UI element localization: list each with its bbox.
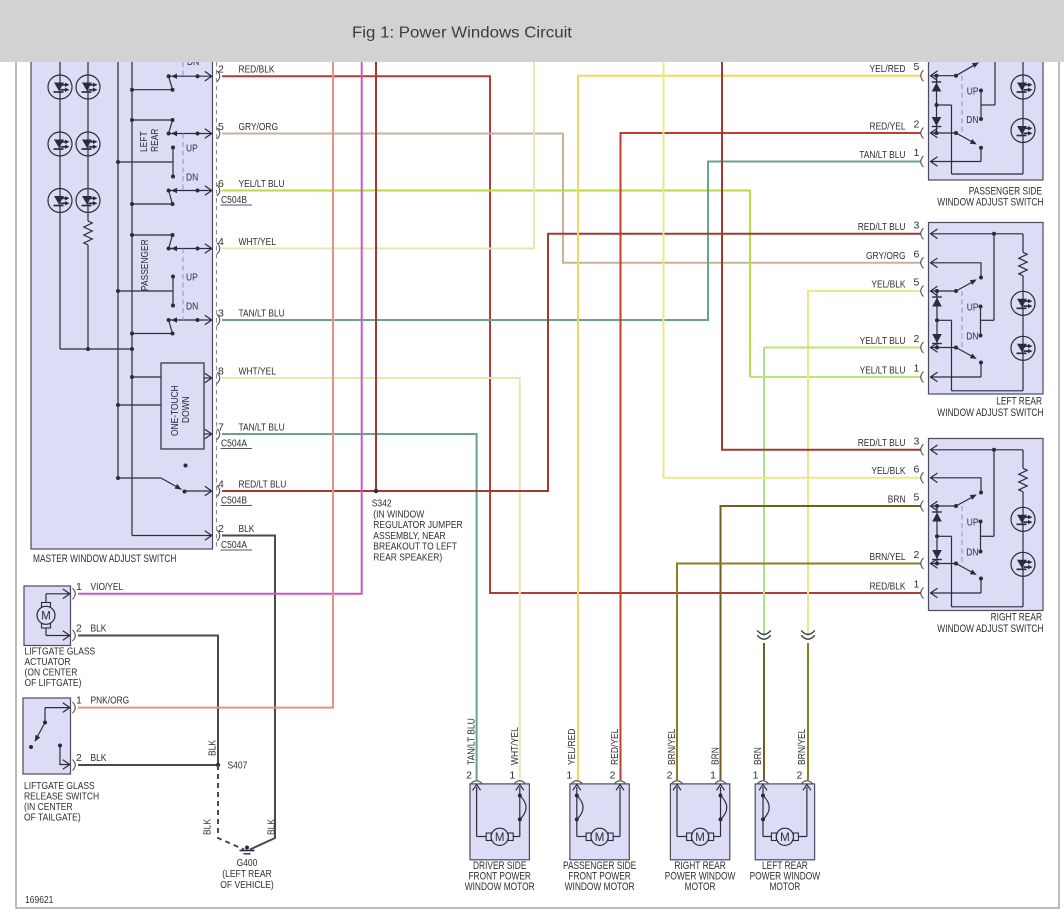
- svg-text:UP: UP: [967, 517, 979, 529]
- master switch internal bus A: [131, 62, 133, 536]
- svg-text:2: 2: [76, 752, 82, 764]
- motor internal wires: [676, 787, 678, 837]
- svg-text:1: 1: [914, 363, 920, 375]
- svg-text:WINDOW MOTOR: WINDOW MOTOR: [565, 881, 635, 893]
- wire RED/LT BLU splice branch to top: [375, 62, 377, 491]
- svg-text:VIO/YEL: VIO/YEL: [91, 581, 124, 593]
- wire BLK dashed S407 to ground G400: [218, 765, 244, 850]
- motor pin connectors: [758, 781, 769, 784]
- svg-text:RED/BLK: RED/BLK: [239, 64, 275, 76]
- svg-text:OF VEHICLE): OF VEHICLE): [220, 880, 273, 891]
- right rear window adjust switch box: [929, 439, 1044, 611]
- motor pin connectors: [471, 781, 482, 784]
- svg-text:OF TAILGATE): OF TAILGATE): [24, 813, 81, 824]
- right side pin 6 YEL/BLK connector: [921, 472, 924, 483]
- master switch actuator dashed linkage left-rear: [182, 134, 184, 191]
- svg-text:1: 1: [914, 579, 920, 591]
- master switch contact row at pin y=133.5: [169, 133, 211, 135]
- motor internal wires: [476, 787, 478, 837]
- master pin 7 TAN/LT BLU connector: [217, 429, 220, 440]
- svg-text:5: 5: [218, 121, 224, 133]
- left rear power window motor box: [755, 784, 814, 860]
- resistor: [1019, 252, 1027, 275]
- svg-text:BLK: BLK: [91, 623, 107, 635]
- svg-text:(IN WINDOW: (IN WINDOW: [373, 509, 424, 520]
- svg-text:RED/LT BLU: RED/LT BLU: [858, 221, 906, 233]
- svg-text:GRY/ORG: GRY/ORG: [239, 121, 279, 133]
- svg-text:DN: DN: [966, 547, 978, 559]
- svg-text:C504B: C504B: [221, 496, 247, 507]
- wire YEL/RED passenger pin5 to passenger motor pin1: [578, 76, 921, 780]
- svg-text:RIGHT REAR: RIGHT REAR: [991, 612, 1042, 624]
- pin6 wire to upper throw contact: [931, 473, 938, 483]
- svg-text:4: 4: [218, 478, 224, 490]
- master switch LED column 1: [59, 62, 61, 349]
- master switch UP/DN contacts passenger section: [171, 275, 175, 279]
- svg-text:2: 2: [914, 549, 920, 561]
- motor pin connectors: [571, 781, 582, 784]
- master switch UP/DN contacts left-rear section: [171, 146, 175, 150]
- svg-text:6: 6: [914, 463, 920, 475]
- svg-text:169621: 169621: [25, 895, 54, 906]
- svg-text:5: 5: [914, 277, 920, 289]
- svg-text:RED/YEL: RED/YEL: [870, 120, 906, 132]
- right side pin 3 RED/LT BLU connector: [921, 444, 924, 455]
- motor commutation arc: [575, 794, 579, 798]
- passenger pin1 row: [931, 157, 938, 167]
- svg-text:TAN/LT BLU: TAN/LT BLU: [859, 149, 905, 161]
- master switch actuator dashed linkage passenger: [182, 249, 184, 321]
- liftgate actuator pin connectors: [73, 588, 76, 599]
- svg-text:2: 2: [914, 119, 920, 131]
- wire BRN right rear pin5 to right rear motor pin1: [721, 506, 922, 780]
- one-touch down output rows pins 8 and 7: [204, 377, 211, 379]
- up switch arm: [956, 496, 975, 507]
- motor symbol: [486, 833, 491, 841]
- svg-text:M: M: [495, 832, 505, 844]
- master window adjust switch U1 box: [31, 57, 213, 549]
- release switch pin connectors: [73, 702, 76, 713]
- svg-text:BRN: BRN: [711, 747, 722, 765]
- svg-text:5: 5: [914, 61, 920, 73]
- svg-text:RED/BLK: RED/BLK: [870, 580, 906, 592]
- right side pin 1 TAN/LT BLU connector: [921, 156, 924, 167]
- svg-text:2: 2: [466, 770, 472, 782]
- motor pin connectors: [672, 781, 683, 784]
- svg-text:LIFTGATE GLASS: LIFTGATE GLASS: [25, 646, 96, 657]
- svg-text:YEL/LT BLU: YEL/LT BLU: [860, 364, 906, 376]
- wire PNK/ORG liftgate release switch pin1 to top: [78, 62, 333, 708]
- LED return bus: [952, 390, 1024, 392]
- passenger side window adjust switch box: [929, 57, 1044, 180]
- pin2 wire and down switch arm: [931, 559, 938, 569]
- passenger switch internals: [931, 71, 938, 81]
- master pin 5 GRY/ORG connector: [217, 128, 220, 139]
- master connector dashed boundary C504: [216, 62, 218, 549]
- wire BLK liftgate release switch pin2 to splice S407: [78, 764, 218, 766]
- svg-text:DN: DN: [186, 301, 198, 313]
- svg-text:LEFTREAR: LEFTREAR: [138, 128, 161, 152]
- svg-text:YEL/LT BLU: YEL/LT BLU: [239, 178, 285, 190]
- svg-text:BREAKOUT TO LEFT: BREAKOUT TO LEFT: [373, 542, 457, 553]
- svg-text:WINDOW ADJUST SWITCH: WINDOW ADJUST SWITCH: [937, 407, 1043, 419]
- switch common feed: [993, 450, 995, 537]
- motor commutation arc: [761, 794, 765, 798]
- svg-text:6: 6: [914, 248, 920, 260]
- one-touch down module box: [161, 363, 204, 449]
- wire BRN/YEL right rear pin2 to right rear motor pin2: [677, 564, 921, 781]
- svg-text:M: M: [780, 832, 790, 844]
- master pin 8 WHT/YEL connector: [217, 373, 220, 384]
- svg-text:G400: G400: [237, 858, 258, 869]
- passenger LED return bus: [937, 104, 952, 106]
- driver side front power window motor box: [470, 784, 529, 860]
- pin2 wire and down switch arm: [931, 343, 938, 353]
- svg-text:TAN/LT BLU: TAN/LT BLU: [467, 718, 478, 765]
- motor internal wires: [762, 787, 764, 837]
- LED indicator right column row 2: [76, 132, 100, 156]
- passenger LED column: [1022, 62, 1024, 174]
- motor commutation arc: [719, 794, 723, 798]
- pin1 wire: [931, 588, 938, 598]
- wire TAN/LT BLU master pin3 to passenger pin1: [222, 162, 921, 321]
- svg-text:C504A: C504A: [221, 540, 247, 551]
- release switch internals: [45, 707, 69, 709]
- LED upper: [1011, 291, 1035, 315]
- svg-text:2: 2: [796, 770, 802, 782]
- right rear power window motor box: [670, 784, 729, 860]
- svg-text:7: 7: [218, 421, 224, 433]
- svg-text:WINDOW ADJUST SWITCH: WINDOW ADJUST SWITCH: [937, 623, 1043, 635]
- title bar: [0, 0, 1064, 62]
- master pin 3 TAN/LT BLU connector: [217, 315, 220, 326]
- svg-text:YEL/LT BLU: YEL/LT BLU: [860, 335, 906, 347]
- svg-text:UP: UP: [186, 143, 198, 155]
- splice S407: [216, 763, 220, 767]
- wire WHT/YEL master pin4 to top: [222, 62, 534, 249]
- svg-text:WHT/YEL: WHT/YEL: [239, 365, 277, 377]
- LED indicator left column row 2: [48, 132, 72, 156]
- right side pin 3 RED/LT BLU connector: [921, 228, 924, 239]
- switch common feed: [993, 234, 995, 320]
- diode pair: [936, 506, 938, 564]
- up switch arm: [956, 281, 975, 292]
- pin5 wire: [931, 501, 938, 511]
- svg-text:PNK/ORG: PNK/ORG: [91, 695, 130, 707]
- liftgate glass release switch box: [23, 698, 71, 774]
- passenger dashed linkage: [961, 76, 963, 133]
- wire BRN/YEL inline connector to left rear motor pin2: [807, 643, 809, 780]
- svg-text:OF LIFTGATE): OF LIFTGATE): [25, 678, 82, 689]
- wire YEL/LT BLU left rear pin2 down to inline connector: [764, 347, 921, 349]
- svg-text:BRN/YEL: BRN/YEL: [667, 728, 678, 765]
- svg-text:BRN/YEL: BRN/YEL: [870, 551, 906, 563]
- svg-text:MOTOR: MOTOR: [685, 881, 716, 893]
- passenger side front power window motor box: [570, 784, 629, 860]
- svg-text:BLK: BLK: [239, 523, 255, 535]
- master switch LED column 2: [87, 62, 89, 221]
- right side pin 5 BRN connector: [921, 501, 924, 512]
- LED merge wire: [60, 348, 132, 350]
- svg-text:WINDOW MOTOR: WINDOW MOTOR: [465, 881, 535, 893]
- svg-text:UP: UP: [967, 86, 979, 98]
- svg-text:BRN/YEL: BRN/YEL: [797, 728, 808, 765]
- resistor: [1019, 468, 1027, 492]
- svg-text:BLK: BLK: [203, 819, 214, 835]
- master switch actuator dashed linkage top clipped: [182, 62, 184, 76]
- svg-text:DN: DN: [966, 331, 978, 343]
- svg-text:M: M: [695, 832, 705, 844]
- svg-text:3: 3: [914, 435, 920, 447]
- svg-text:DN: DN: [186, 172, 198, 184]
- svg-text:Fig 1: Power Windows Circuit: Fig 1: Power Windows Circuit: [352, 25, 573, 42]
- svg-text:RED/LT BLU: RED/LT BLU: [239, 478, 287, 490]
- svg-text:2: 2: [610, 770, 616, 782]
- svg-text:2: 2: [218, 523, 224, 535]
- wire YEL/LT BLU master pin6 to left rear pin1: [222, 191, 750, 378]
- svg-text:M: M: [41, 611, 51, 623]
- wire TAN/LT BLU master pin7 to driver motor pin2: [222, 434, 477, 780]
- liftgate actuator motor symbol: [45, 594, 47, 604]
- svg-text:WHT/YEL: WHT/YEL: [510, 727, 521, 765]
- master pin 2 BLK connector: [217, 530, 220, 541]
- svg-text:RED/YEL: RED/YEL: [610, 728, 621, 765]
- right side pin 1 YEL/LT BLU connector: [921, 372, 924, 383]
- svg-text:3: 3: [914, 219, 920, 231]
- wire RED/LT BLU master pin4 via splice S342 to left rear pin3: [222, 234, 921, 491]
- wire YEL/BLK left rear pin5 down to inline connector: [808, 291, 921, 637]
- ground G400: [245, 846, 249, 850]
- svg-text:MOTOR: MOTOR: [769, 881, 800, 893]
- svg-text:C504B: C504B: [221, 195, 247, 206]
- actuator dashed linkage: [961, 506, 963, 564]
- wire RED/YEL passenger pin2 to passenger motor pin2: [621, 133, 922, 780]
- svg-text:(IN CENTER: (IN CENTER: [24, 802, 73, 813]
- svg-text:YEL/RED: YEL/RED: [870, 63, 906, 75]
- liftgate glass actuator box: [24, 586, 71, 646]
- svg-text:BLK: BLK: [208, 740, 219, 756]
- passenger diode pair: [936, 76, 938, 133]
- svg-text:UP: UP: [967, 302, 979, 314]
- right side pin 6 GRY/ORG connector: [921, 257, 924, 268]
- passenger UP/DN common: [979, 89, 983, 93]
- pin3 feed wire and resistor branch: [931, 233, 1024, 235]
- right side pin 2 RED/YEL connector: [921, 128, 924, 139]
- svg-text:LEFT REAR: LEFT REAR: [996, 396, 1042, 408]
- svg-text:1: 1: [753, 770, 759, 782]
- svg-text:UP: UP: [186, 272, 198, 284]
- svg-text:DN: DN: [966, 114, 978, 126]
- svg-text:RELEASE SWITCH: RELEASE SWITCH: [24, 792, 99, 803]
- svg-text:BLK: BLK: [91, 752, 107, 764]
- master switch internal bus B: [117, 62, 119, 478]
- svg-text:BRN: BRN: [753, 747, 764, 765]
- pin6 wire to upper throw contact: [931, 258, 938, 268]
- svg-text:LIFTGATE GLASS: LIFTGATE GLASS: [24, 781, 95, 792]
- master switch ground row pin2 BLK: [132, 535, 211, 537]
- right side pin 1 RED/BLK connector: [921, 588, 924, 599]
- right side pin 2 BRN/YEL connector: [921, 558, 924, 569]
- actuator dashed linkage: [961, 291, 963, 348]
- master switch contact row at pin y=190.5: [169, 190, 211, 192]
- svg-text:5: 5: [914, 492, 920, 504]
- master pin 2 RED/BLK connector: [217, 71, 220, 82]
- svg-text:2: 2: [667, 770, 673, 782]
- svg-text:ASSEMBLY, NEAR: ASSEMBLY, NEAR: [373, 531, 445, 542]
- inline connector break right: [801, 630, 815, 634]
- one-touch down feed wires: [132, 376, 161, 378]
- master pin 4 WHT/YEL connector: [217, 243, 220, 254]
- motor symbol: [771, 833, 776, 841]
- svg-text:YEL/BLK: YEL/BLK: [871, 465, 905, 477]
- master switch contact row at pin y=248.5: [169, 248, 211, 250]
- svg-text:2: 2: [914, 333, 920, 345]
- svg-text:S342: S342: [372, 499, 392, 510]
- svg-text:TAN/LT BLU: TAN/LT BLU: [239, 421, 285, 433]
- svg-text:1: 1: [566, 770, 572, 782]
- master pin 4 RED/LT BLU connector: [217, 486, 220, 497]
- motor symbol: [687, 833, 692, 841]
- right side pin 5 YEL/BLK connector: [921, 286, 924, 297]
- svg-text:1: 1: [710, 770, 716, 782]
- master pin 6 YEL/LT BLU connector: [217, 185, 220, 196]
- pin1 wire: [931, 372, 938, 382]
- svg-text:S407: S407: [228, 761, 248, 772]
- LED lower: [1011, 552, 1035, 576]
- diode pair: [936, 291, 938, 348]
- svg-text:WINDOW ADJUST SWITCH: WINDOW ADJUST SWITCH: [937, 196, 1043, 208]
- LED return bus: [952, 606, 1024, 608]
- master switch express-down contact pin4: [118, 477, 161, 479]
- svg-text:WHT/YEL: WHT/YEL: [239, 236, 277, 248]
- svg-text:YEL/RED: YEL/RED: [567, 729, 578, 765]
- svg-text:GRY/ORG: GRY/ORG: [866, 250, 906, 262]
- svg-text:4: 4: [218, 236, 224, 248]
- svg-text:BRN: BRN: [888, 493, 906, 505]
- svg-text:1: 1: [76, 581, 82, 593]
- svg-text:BLK: BLK: [267, 819, 278, 835]
- svg-text:1: 1: [914, 147, 920, 159]
- left rear window adjust switch box: [929, 223, 1044, 395]
- svg-text:(ON CENTER: (ON CENTER: [25, 667, 78, 678]
- svg-text:(LEFT REAR: (LEFT REAR: [222, 869, 272, 880]
- master switch contact row at pin y=320: [169, 319, 211, 321]
- master switch contact row at pin y=76.2: [169, 75, 211, 77]
- wire GRY/ORG master pin5 to left rear pin6: [222, 134, 921, 263]
- svg-text:2: 2: [218, 64, 224, 76]
- LED indicator right column row 3: [76, 189, 100, 213]
- pin3 feed wire and resistor branch: [931, 449, 1024, 451]
- right side pin 5 YEL/RED connector: [921, 70, 924, 81]
- LED indicator left column row 3: [48, 189, 72, 213]
- inline connector break left: [757, 630, 771, 634]
- svg-text:C504A: C504A: [221, 439, 247, 450]
- wire BLK liftgate actuator pin2 to splice S407: [78, 636, 218, 766]
- svg-text:PASSENGER: PASSENGER: [139, 239, 151, 291]
- svg-text:1: 1: [509, 770, 515, 782]
- splice S342: [374, 489, 378, 493]
- LED lower: [1011, 336, 1035, 360]
- svg-text:2: 2: [76, 623, 82, 635]
- motor commutation arc: [518, 794, 522, 798]
- wire YEL/BLK top to right rear pin6: [664, 62, 922, 478]
- LED indicator right column row 1: [76, 75, 100, 99]
- LED upper: [1011, 507, 1035, 531]
- LED indicator left column row 1: [48, 75, 72, 99]
- wire VIO/YEL liftgate actuator pin1 to top: [78, 62, 362, 594]
- svg-text:ACTUATOR: ACTUATOR: [25, 657, 71, 668]
- wire RED/BLK master pin2 to right rear pin1: [222, 76, 921, 593]
- svg-text:6: 6: [218, 178, 224, 190]
- svg-text:REAR SPEAKER): REAR SPEAKER): [373, 552, 442, 563]
- svg-text:MASTER WINDOW ADJUST SWITCH: MASTER WINDOW ADJUST SWITCH: [33, 553, 176, 565]
- svg-text:8: 8: [218, 365, 224, 377]
- master switch resistor: [84, 221, 92, 245]
- svg-text:TAN/LT BLU: TAN/LT BLU: [239, 307, 285, 319]
- right side pin 2 YEL/LT BLU connector: [921, 342, 924, 353]
- svg-text:YEL/BLK: YEL/BLK: [871, 278, 905, 290]
- wire BLK master pin2 to ground G400: [222, 536, 275, 850]
- svg-text:M: M: [595, 832, 605, 844]
- svg-text:1: 1: [76, 695, 82, 707]
- svg-text:REGULATOR JUMPER: REGULATOR JUMPER: [373, 520, 462, 531]
- wire BRN inline connector to left rear motor pin1: [763, 643, 765, 780]
- motor symbol: [586, 833, 591, 841]
- pin5 wire: [931, 286, 938, 296]
- wire WHT/YEL master pin8 to driver motor pin1: [222, 378, 520, 780]
- passenger pin2 row and down arm: [931, 128, 938, 138]
- svg-text:3: 3: [218, 307, 224, 319]
- motor internal wires: [576, 787, 578, 837]
- wire RED/LT BLU top to right rear pin3: [722, 62, 921, 450]
- svg-text:RED/LT BLU: RED/LT BLU: [858, 437, 906, 449]
